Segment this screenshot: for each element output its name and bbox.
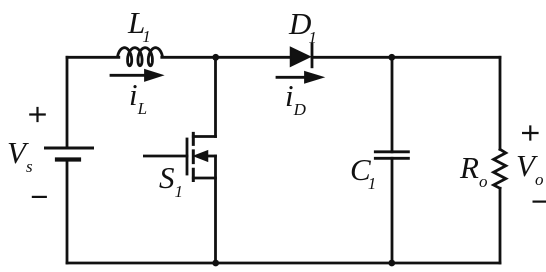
label Vo — [516, 150, 543, 188]
node junction top S1 — [212, 54, 219, 61]
node junction bottom S1 — [212, 260, 219, 267]
transistor S1 MOSFET — [144, 133, 215, 180]
label Vs — [7, 137, 33, 175]
resistor Ro zigzag — [494, 149, 506, 188]
battery source Vs — [46, 148, 93, 160]
label Ro — [460, 152, 487, 190]
wire right rail upper — [499, 57, 502, 149]
wire left rail upper — [66, 57, 69, 148]
minus sign source — [33, 196, 46, 198]
wire right rail lower — [499, 188, 502, 263]
label L1 — [128, 7, 148, 45]
current arrow iL — [111, 71, 160, 80]
label iL — [129, 79, 147, 117]
wire top rail middle segment — [162, 56, 291, 59]
label S1 — [159, 162, 183, 200]
minus sign output — [534, 201, 546, 203]
wire top rail right segment — [312, 56, 500, 59]
node junction top C1 — [388, 54, 395, 61]
capacitor C1 — [375, 152, 408, 159]
wire C1 branch lower — [391, 158, 394, 263]
wire bottom rail — [67, 262, 500, 265]
current arrow iD — [277, 73, 321, 82]
node junction bottom C1 — [388, 260, 395, 267]
wire S1 drain branch — [214, 57, 217, 136]
diode D1 — [291, 44, 313, 67]
label iD — [285, 80, 306, 118]
label D1 — [289, 8, 314, 46]
label C1 — [350, 154, 373, 192]
inductor L1 coil — [118, 48, 163, 66]
plus sign output — [523, 127, 537, 140]
wire top rail left segment — [67, 56, 119, 59]
wire left rail lower — [66, 160, 69, 264]
wire S1 source branch — [214, 156, 217, 263]
wire C1 branch upper — [391, 57, 394, 152]
plus sign source — [30, 108, 44, 121]
